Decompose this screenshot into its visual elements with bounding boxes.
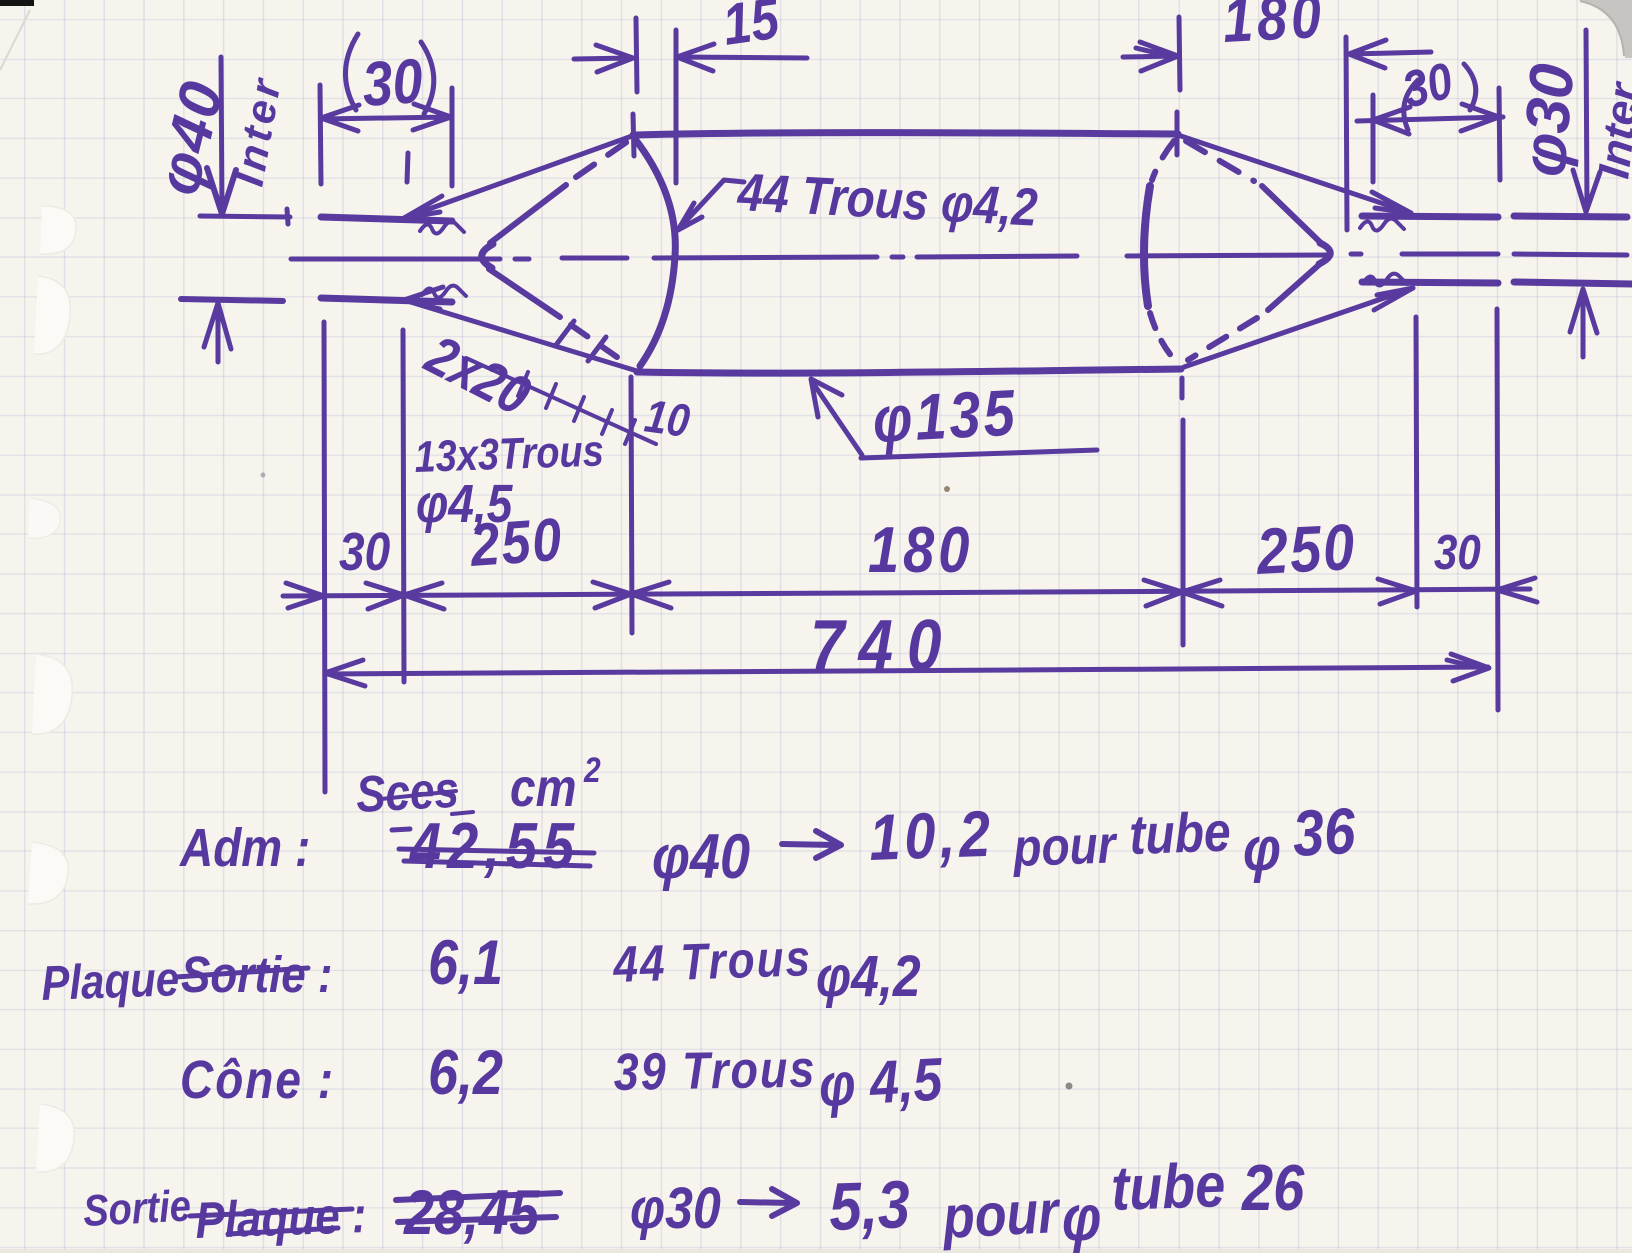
svg-text:250: 250 <box>467 505 565 579</box>
phi40 dim down arrowhead <box>207 168 236 214</box>
bottom dims vertical tick x403 <box>403 330 404 682</box>
dim cross arrows at x404 <box>366 583 444 609</box>
right end plate arc dashed top <box>1152 141 1174 180</box>
svg-text:φ4,2: φ4,2 <box>816 945 921 1009</box>
dim 180 top tick A <box>1179 17 1180 90</box>
bottom scan edge <box>0 1249 1632 1253</box>
strike 28,45 <box>396 1193 560 1222</box>
left end plate arc <box>635 139 675 366</box>
left inlet tube top edge <box>321 217 452 221</box>
inner cone tick 2 <box>588 337 606 361</box>
phi135 underline <box>861 450 1097 458</box>
svg-text:180: 180 <box>1221 0 1327 56</box>
svg-text:44 Trous: 44 Trous <box>612 930 813 994</box>
svg-text:φ30: φ30 <box>1509 61 1588 179</box>
dim 180 top tick B <box>1346 37 1347 230</box>
right inner cone lower branch solid <box>1268 263 1321 310</box>
body top line <box>633 133 1178 135</box>
svg-text:15: 15 <box>719 0 784 58</box>
right outer cone bottom weld squiggle <box>1363 274 1407 286</box>
dim cross arrows at x1182 <box>1144 580 1222 606</box>
svg-text:Inter: Inter <box>1589 78 1632 181</box>
dim (30) right paren A <box>1404 80 1418 130</box>
bottom dims vertical tick x1182 <box>1182 378 1183 645</box>
svg-text:30: 30 <box>360 46 425 120</box>
right inner cone lower branch dashed <box>1188 318 1257 360</box>
punch hole 5 <box>28 842 68 904</box>
right inner cone upper branch solid <box>1262 186 1322 244</box>
hole row hatch line <box>466 358 656 444</box>
hatch tick 4 <box>602 410 612 434</box>
dim 180 top right arrow <box>1349 40 1431 68</box>
dim 15 tick A <box>636 18 637 92</box>
centerline dash-dot <box>291 254 1627 259</box>
punch hole 6 <box>36 1104 74 1172</box>
left outer cone top weld squiggle <box>420 222 464 234</box>
svg-text:250: 250 <box>1254 510 1358 588</box>
svg-text:26: 26 <box>1241 1151 1305 1224</box>
dim 740 line <box>325 667 1488 674</box>
dim (30) right paren B <box>1464 64 1476 110</box>
svg-text:42,55: 42,55 <box>409 809 580 882</box>
svg-text:36: 36 <box>1291 794 1358 870</box>
punch hole 1 <box>40 206 76 254</box>
right end plate arc solid middle <box>1144 186 1150 306</box>
dim 740 right arrowhead <box>1447 654 1489 681</box>
dim 15 corner stub <box>633 114 634 156</box>
arrow adm row <box>782 831 841 858</box>
dim (30) left small tick <box>407 153 408 182</box>
svg-text:Sortie: Sortie <box>82 1181 192 1236</box>
arrow sortie row <box>740 1189 797 1216</box>
hatch tick 1 <box>518 372 528 396</box>
svg-text:Cône :: Cône : <box>180 1050 335 1110</box>
svg-text:180: 180 <box>868 513 973 586</box>
svg-text:φ135: φ135 <box>871 376 1019 456</box>
dim 180 top corner stub <box>1175 112 1180 155</box>
left inner cone upper branch dashed <box>576 139 631 177</box>
body bottom line <box>637 369 1181 373</box>
right end plate arc dashed bottom <box>1150 313 1173 358</box>
page rounded corner top-right <box>1578 0 1632 58</box>
left inner cone lower branch solid <box>489 269 560 317</box>
dim (30) right tick A <box>1371 95 1376 182</box>
ink speck 2 <box>1066 1083 1073 1090</box>
ink speck 1 <box>944 486 950 492</box>
left inner cone tip <box>482 244 493 268</box>
svg-text:tube: tube <box>1128 801 1231 867</box>
dim cross arrows at x631 <box>593 582 671 608</box>
right outer cone top weld squiggle <box>1360 219 1404 231</box>
dim (30) right line with arrows <box>1357 104 1503 134</box>
bottom dims vertical tick x324 <box>324 322 325 792</box>
right outlet tube top edge <box>1362 216 1627 217</box>
svg-text:Sortie :: Sortie : <box>181 947 333 1004</box>
inner cone tick 1 <box>556 321 574 345</box>
right outer cone bottom line <box>1184 288 1413 367</box>
left inlet tube bottom edge <box>321 298 452 302</box>
left outer cone top line <box>404 136 632 218</box>
svg-text:10: 10 <box>642 391 693 448</box>
svg-text:2: 2 <box>583 751 601 790</box>
right outlet tube bottom edge <box>1362 282 1632 284</box>
right outer cone top line <box>1181 136 1411 213</box>
svg-text:Plaque :: Plaque : <box>194 1187 367 1250</box>
svg-text:pour: pour <box>1010 814 1118 878</box>
phi30 dim up arrow lower <box>1570 289 1597 357</box>
dim (30) left paren B <box>421 42 434 114</box>
hatch tick 3 <box>574 397 584 421</box>
strike 42,55 <box>392 829 594 866</box>
dim 15 tick B <box>674 30 679 183</box>
strike plaque row4 <box>190 1209 352 1234</box>
paper corner crease top-left <box>0 10 30 70</box>
right outer cone top arrowhead <box>1372 192 1411 213</box>
svg-text:39 Trous: 39 Trous <box>613 1040 817 1101</box>
label 44 trous arrow <box>678 180 744 230</box>
svg-text:Plaque: Plaque <box>40 951 179 1010</box>
bottom dims vertical tick x1416 <box>1416 317 1417 607</box>
dim 180 top left arrow <box>1123 42 1178 71</box>
dim (30) left paren A <box>345 34 358 110</box>
punch hole 2 <box>34 276 70 354</box>
ink speck 3 <box>261 473 266 478</box>
hatch tick 2 <box>546 384 556 408</box>
phi40 bottom shoulder tick <box>181 299 283 301</box>
left outer cone bottom weld squiggle <box>422 286 466 298</box>
svg-text:30: 30 <box>339 522 390 582</box>
dim arrow at x1416 <box>1378 579 1416 604</box>
svg-text:2x20: 2x20 <box>415 324 539 428</box>
svg-text:φ40: φ40 <box>652 822 750 892</box>
svg-text:5,3: 5,3 <box>828 1167 911 1245</box>
dim 15 left arrow <box>574 45 633 72</box>
phi40 top shoulder tick <box>200 209 290 224</box>
left outer cone bottom arrowhead <box>404 287 443 309</box>
svg-text:10,2: 10,2 <box>868 797 995 874</box>
phi40 dim up arrow below <box>204 303 231 362</box>
dim arrows at x324 <box>286 583 324 608</box>
phi40 dim shaft upper <box>221 57 222 212</box>
left inner cone lower branch dashed <box>571 325 627 364</box>
dim (30) left tick A <box>320 85 321 184</box>
bottom dims vertical tick x1497 <box>1497 309 1498 710</box>
hatch tick 5 <box>625 420 635 444</box>
left outer cone bottom line <box>404 300 637 371</box>
svg-text:30: 30 <box>1434 525 1481 580</box>
dim arrow at x1497 <box>1497 578 1537 602</box>
svg-text:φ: φ <box>1243 814 1281 884</box>
dim (30) left line with arrows <box>321 104 451 131</box>
right inner cone upper branch dashed <box>1186 141 1254 181</box>
punch hole 4 <box>32 654 72 734</box>
dim (30) left tick B <box>450 88 455 186</box>
svg-text:6,2: 6,2 <box>428 1038 503 1108</box>
bottom dims vertical tick x631 <box>631 377 632 633</box>
svg-text:740: 740 <box>810 606 955 686</box>
scanner black edge top-left <box>0 0 34 6</box>
dim 15 right arrow <box>677 44 807 71</box>
bottom dim line y593 <box>283 589 1530 596</box>
dim (30) right tick B <box>1499 88 1500 180</box>
svg-text:28,45: 28,45 <box>403 1178 540 1248</box>
svg-text:44 Trous φ4,2: 44 Trous φ4,2 <box>735 162 1039 238</box>
strike sortie row2 <box>176 968 308 977</box>
right inner cone tip <box>1319 243 1330 264</box>
punch hole 3 <box>28 498 60 538</box>
svg-text:φ30: φ30 <box>630 1177 721 1241</box>
right outer cone bottom arrowhead <box>1374 288 1413 310</box>
svg-text:6,1: 6,1 <box>428 928 503 998</box>
phi30 dim shaft upper <box>1573 30 1600 212</box>
svg-text:tube: tube <box>1110 1150 1226 1224</box>
dim 740 left arrowhead <box>325 660 365 686</box>
svg-text:φ 4,5: φ 4,5 <box>817 1045 944 1119</box>
svg-text:pour: pour <box>939 1177 1063 1251</box>
svg-text:φ: φ <box>1062 1181 1101 1253</box>
strike sces <box>381 791 473 814</box>
left outer cone top arrowhead <box>404 196 442 218</box>
svg-text:Adm :: Adm : <box>178 818 310 878</box>
phi135 arrow <box>811 379 862 455</box>
left inner cone upper branch solid <box>490 185 566 243</box>
